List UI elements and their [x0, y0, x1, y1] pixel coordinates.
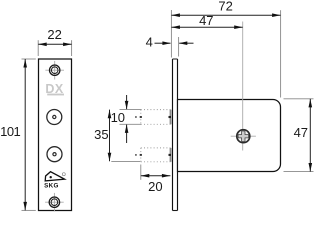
svg-text:47: 47	[199, 13, 213, 28]
svg-text:20: 20	[148, 179, 162, 194]
svg-text:47: 47	[294, 125, 308, 140]
svg-text:22: 22	[47, 27, 61, 42]
svg-text:SKG: SKG	[44, 182, 59, 189]
svg-text:4: 4	[146, 35, 153, 50]
svg-text:101: 101	[0, 124, 20, 139]
svg-text:72: 72	[218, 0, 232, 14]
svg-text:10: 10	[111, 110, 125, 125]
svg-text:35: 35	[94, 127, 108, 142]
